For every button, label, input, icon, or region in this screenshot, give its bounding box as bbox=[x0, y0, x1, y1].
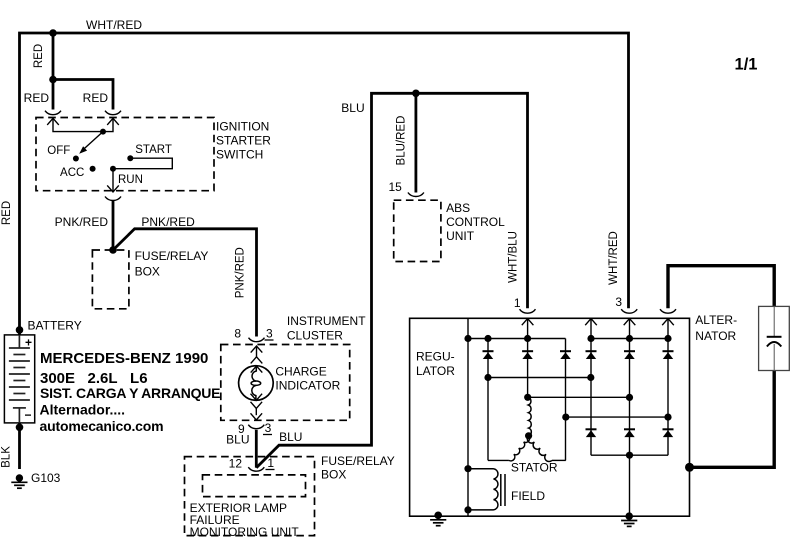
svg-text:WHT/RED: WHT/RED bbox=[608, 231, 620, 285]
svg-text:LATOR: LATOR bbox=[416, 364, 455, 378]
svg-text:SWITCH: SWITCH bbox=[216, 148, 263, 162]
svg-text:PNK/RED: PNK/RED bbox=[235, 247, 247, 298]
svg-text:CLUSTER: CLUSTER bbox=[287, 329, 343, 343]
svg-text:BLU: BLU bbox=[226, 433, 249, 447]
svg-text:15: 15 bbox=[389, 180, 403, 194]
svg-text:G103: G103 bbox=[31, 471, 61, 485]
svg-text:RED: RED bbox=[1, 201, 13, 225]
svg-text:NATOR: NATOR bbox=[695, 329, 736, 343]
svg-text:ACC: ACC bbox=[60, 167, 84, 179]
svg-text:RED: RED bbox=[33, 44, 45, 68]
svg-text:BATTERY: BATTERY bbox=[28, 319, 82, 333]
svg-text:SIST. CARGA Y ARRANQUE: SIST. CARGA Y ARRANQUE bbox=[40, 385, 220, 401]
svg-text:BLU: BLU bbox=[279, 430, 302, 444]
svg-text:RED: RED bbox=[24, 91, 50, 105]
svg-text:INSTRUMENT: INSTRUMENT bbox=[287, 314, 366, 328]
svg-text:CHARGE: CHARGE bbox=[275, 364, 326, 378]
svg-text:BOX: BOX bbox=[135, 265, 160, 279]
svg-text:STATOR: STATOR bbox=[511, 461, 558, 475]
svg-text:FUSE/RELAY: FUSE/RELAY bbox=[321, 454, 395, 468]
svg-text:MONITORING UNIT: MONITORING UNIT bbox=[190, 525, 300, 539]
svg-text:ABS: ABS bbox=[446, 201, 470, 215]
svg-text:1/1: 1/1 bbox=[735, 56, 758, 74]
svg-text:3: 3 bbox=[266, 327, 273, 341]
svg-text:1: 1 bbox=[514, 296, 521, 310]
svg-text:12: 12 bbox=[229, 457, 243, 471]
svg-text:CONTROL: CONTROL bbox=[446, 215, 505, 229]
svg-text:BLK: BLK bbox=[1, 446, 13, 468]
svg-text:+: + bbox=[25, 336, 32, 350]
svg-text:INDICATOR: INDICATOR bbox=[275, 379, 340, 393]
svg-text:RED: RED bbox=[83, 91, 109, 105]
svg-text:FUSE/RELAY: FUSE/RELAY bbox=[135, 249, 209, 263]
svg-text:PNK/RED: PNK/RED bbox=[141, 215, 195, 229]
svg-text:BOX: BOX bbox=[321, 468, 346, 482]
svg-text:REGU-: REGU- bbox=[416, 349, 455, 363]
svg-text:PNK/RED: PNK/RED bbox=[55, 215, 109, 229]
svg-text:FIELD: FIELD bbox=[511, 489, 545, 503]
svg-text:−: − bbox=[24, 408, 31, 422]
svg-text:BLU/RED: BLU/RED bbox=[396, 116, 408, 166]
svg-text:automecanico.com: automecanico.com bbox=[40, 418, 164, 434]
svg-text:3: 3 bbox=[615, 295, 622, 309]
svg-text:STARTER: STARTER bbox=[216, 134, 271, 148]
svg-text:MERCEDES-BENZ 1990: MERCEDES-BENZ 1990 bbox=[40, 350, 208, 367]
svg-text:ALTER-: ALTER- bbox=[695, 313, 737, 327]
svg-text:RUN: RUN bbox=[118, 174, 143, 186]
svg-text:OFF: OFF bbox=[47, 145, 70, 157]
svg-text:BLU: BLU bbox=[341, 101, 364, 115]
svg-text:8: 8 bbox=[234, 327, 241, 341]
svg-text:START: START bbox=[135, 144, 172, 156]
svg-text:3: 3 bbox=[265, 421, 272, 435]
svg-text:UNIT: UNIT bbox=[446, 229, 475, 243]
svg-text:IGNITION: IGNITION bbox=[216, 120, 269, 134]
svg-text:WHT/RED: WHT/RED bbox=[86, 18, 142, 32]
svg-text:1: 1 bbox=[267, 456, 274, 470]
svg-text:WHT/BLU: WHT/BLU bbox=[508, 231, 520, 283]
svg-text:Alternador....: Alternador.... bbox=[40, 402, 126, 418]
